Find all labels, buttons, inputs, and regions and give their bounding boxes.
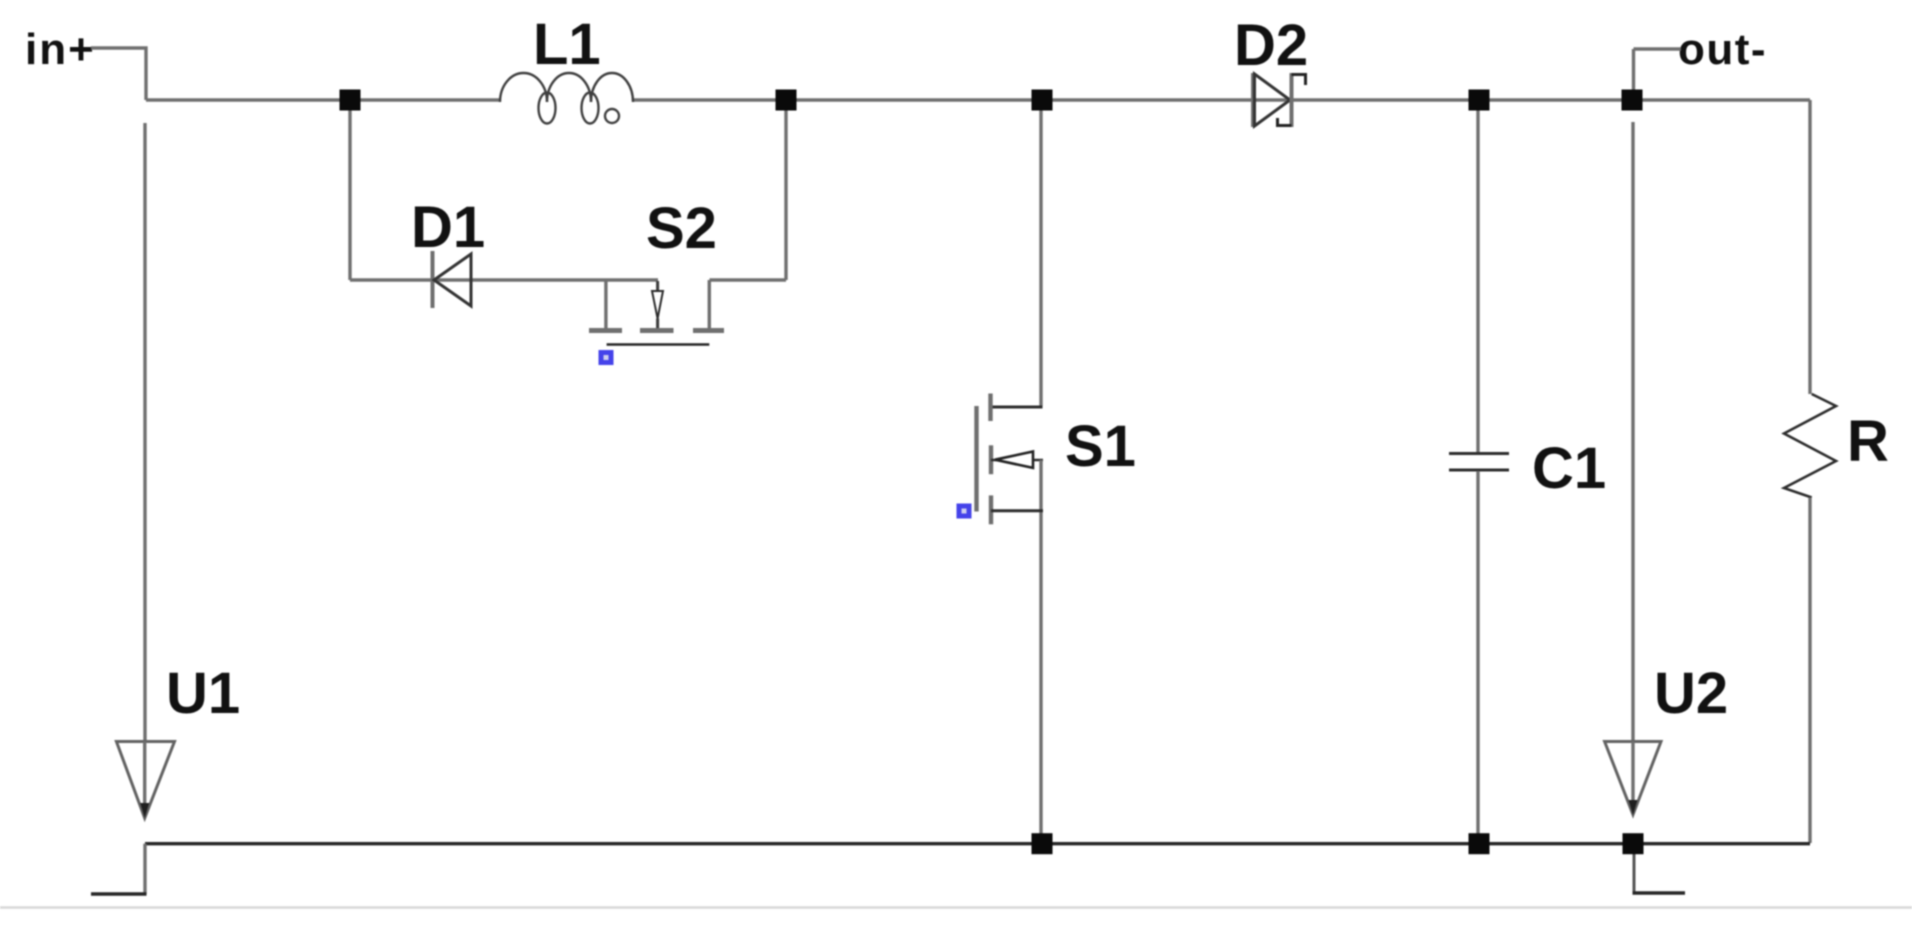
wire in+ lead	[91, 48, 146, 100]
diode D2 (with hooked cathode)	[1253, 73, 1306, 127]
inductor L1	[500, 73, 633, 124]
junction node: bottom rail / C1 branch	[1469, 833, 1490, 854]
wire D1 row horizontal	[350, 278, 658, 281]
wire top main bus (left of L1)	[146, 98, 500, 101]
wire bottom rail	[145, 842, 1810, 845]
svg-text:R: R	[1847, 409, 1889, 474]
capacitor C1	[1449, 100, 1509, 843]
svg-text:U1: U1	[166, 661, 240, 726]
resistor R	[1784, 100, 1836, 843]
diode D1	[433, 251, 472, 308]
wire top main bus (right of L1)	[633, 98, 1810, 101]
svg-text:S1: S1	[1065, 414, 1136, 479]
svg-text:L1: L1	[533, 12, 601, 77]
junction node: top bus / S2 branch	[340, 90, 361, 111]
wire out- lead	[1634, 49, 1682, 95]
junction node: top bus / S2 right terminal	[776, 90, 797, 111]
junction node: bottom rail / S1 source	[1032, 833, 1053, 854]
svg-text:D2: D2	[1234, 13, 1308, 78]
svg-text:S2: S2	[646, 196, 717, 261]
junction node: top bus / C1 branch	[1469, 90, 1490, 111]
wire bottom-right stub (out return)	[1633, 844, 1636, 893]
wire U2 branch	[1631, 122, 1634, 740]
wire S2-branch drop from junction	[348, 100, 351, 280]
voltage arrow U2	[1605, 742, 1661, 816]
junction node: top bus / out- lead	[1622, 90, 1643, 111]
transistor S1 (MOSFET)	[957, 100, 1044, 843]
wire left rail	[143, 123, 146, 740]
svg-text:C1: C1	[1532, 436, 1606, 501]
svg-text:U2: U2	[1654, 661, 1728, 726]
svg-text:in+: in+	[25, 25, 96, 74]
svg-text:D1: D1	[411, 195, 485, 260]
junction node: top bus / S1 drain	[1032, 90, 1053, 111]
svg-text:out-: out-	[1678, 25, 1767, 74]
junction node: bottom rail / U2 branch	[1623, 833, 1644, 854]
wire bottom-left stub (in- return)	[143, 844, 146, 894]
voltage arrow U1	[116, 742, 174, 819]
wire S2 right terminal up to bus	[710, 100, 787, 280]
transistor S2 (MOSFET)	[589, 280, 724, 365]
